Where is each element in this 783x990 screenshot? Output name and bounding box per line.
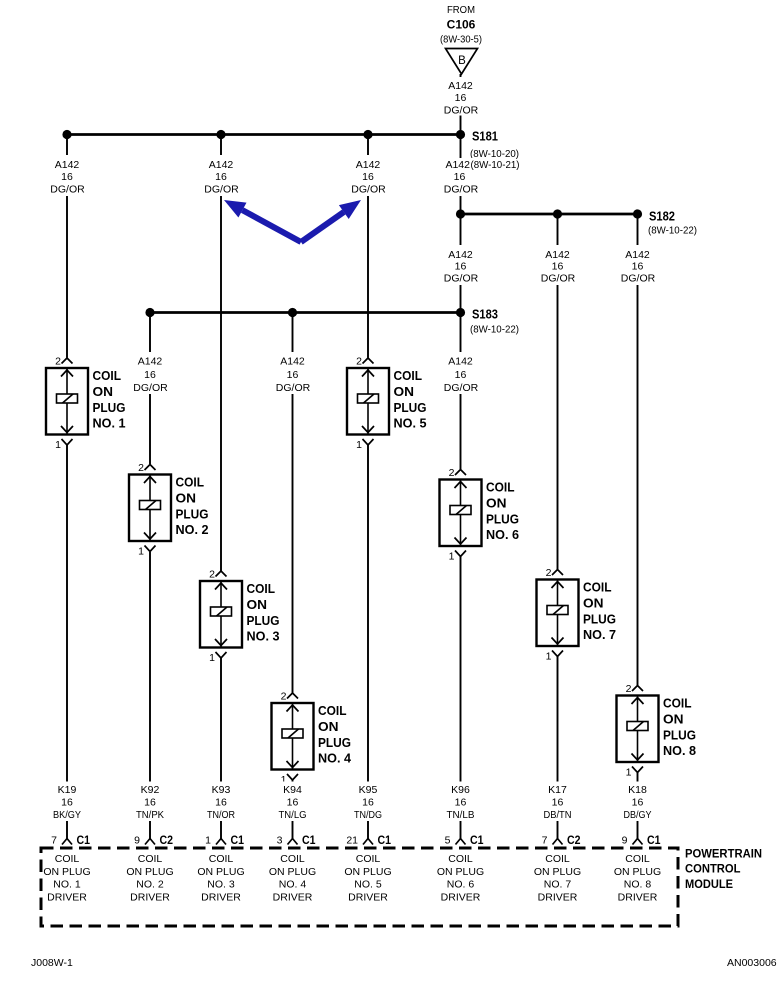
splice S181 junction dot at column 6 [456, 130, 465, 139]
wire A142 16 DG/OR column 3 (S181 bus to coil 3 pin 2) [220, 135, 222, 572]
svg-text:K94: K94 [283, 784, 302, 796]
svg-text:DB/GY: DB/GY [624, 809, 652, 821]
svg-text:ON PLUG: ON PLUG [126, 866, 173, 878]
wire K94 16 TN/LG coil 4 pin 1 to PCM [292, 779, 294, 840]
svg-text:1: 1 [449, 551, 455, 563]
svg-text:CONTROL: CONTROL [685, 862, 741, 876]
wire A142 16 DG/OR from C106 to S181/S182/S183 and coil 6 (column 6) [460, 74, 462, 469]
svg-text:16: 16 [362, 797, 374, 809]
svg-text:S181: S181 [472, 130, 498, 144]
svg-text:MODULE: MODULE [685, 877, 733, 891]
svg-text:COIL: COIL [93, 368, 122, 383]
svg-text:DRIVER: DRIVER [538, 892, 578, 904]
svg-text:S182: S182 [649, 210, 675, 224]
svg-text:PLUG: PLUG [394, 400, 427, 415]
svg-text:NO. 3: NO. 3 [247, 629, 280, 644]
svg-text:K96: K96 [451, 784, 470, 796]
connector pin 21 C1 (coil 5 driver) [346, 833, 391, 847]
svg-text:A142: A142 [356, 159, 381, 171]
svg-text:COIL: COIL [55, 853, 80, 865]
svg-text:TN/PK: TN/PK [136, 809, 164, 821]
label wire A142 16 DG/OR column 7 [536, 245, 580, 285]
svg-text:A142: A142 [545, 249, 570, 261]
label wire A142 16 (8W-10-21) DG/OR (below S181) [444, 158, 520, 196]
connector pin 5 C1 (coil 6 driver) [445, 833, 484, 847]
svg-text:DRIVER: DRIVER [348, 892, 388, 904]
coil on plug no. 5 (component) [347, 356, 427, 452]
svg-text:DRIVER: DRIVER [618, 892, 658, 904]
label wire A142 16 DG/OR column 1 [45, 155, 89, 196]
svg-text:DG/OR: DG/OR [204, 184, 239, 196]
node S183 label [470, 308, 519, 336]
svg-text:COIL: COIL [356, 853, 381, 865]
svg-text:COIL: COIL [545, 853, 570, 865]
svg-text:DG/OR: DG/OR [444, 273, 479, 285]
junction dot S183 bus at column 4 [288, 308, 297, 317]
svg-text:16: 16 [362, 171, 374, 183]
svg-text:5: 5 [445, 835, 451, 847]
svg-text:PLUG: PLUG [247, 613, 280, 628]
label J008W-1 (diagram number) [31, 957, 73, 969]
svg-text:1: 1 [356, 439, 362, 451]
svg-text:NO. 6: NO. 6 [486, 527, 519, 542]
svg-text:ON PLUG: ON PLUG [344, 866, 391, 878]
svg-text:ON: ON [247, 597, 268, 612]
svg-text:COIL: COIL [486, 480, 515, 495]
svg-text:C106: C106 [447, 18, 476, 32]
svg-text:NO. 1: NO. 1 [53, 879, 81, 891]
wire K93 16 TN/OR coil 3 pin 1 to PCM [220, 658, 222, 840]
splice S182 junction dot at column 8 [633, 209, 642, 218]
svg-text:A142: A142 [280, 356, 305, 368]
svg-text:TN/DG: TN/DG [354, 809, 382, 821]
svg-text:K95: K95 [359, 784, 378, 796]
label wire K92 16 TN/PK [126, 782, 174, 822]
svg-text:NO. 7: NO. 7 [544, 879, 572, 891]
svg-text:21: 21 [346, 835, 358, 847]
coil on plug no. 1 (component) [46, 356, 126, 452]
svg-text:ON: ON [486, 496, 507, 511]
connector pin 3 C1 (coil 4 driver) [277, 833, 316, 847]
svg-text:NO. 5: NO. 5 [394, 416, 427, 431]
svg-text:COIL: COIL [318, 703, 347, 718]
bus wire S181 (horizontal) [67, 133, 461, 136]
svg-text:16: 16 [632, 797, 644, 809]
connector pin 7 C2 (coil 7 driver) [542, 833, 581, 847]
svg-text:B: B [458, 55, 466, 67]
wire K96 16 TN/LB coil 6 pin 1 to PCM [460, 557, 462, 840]
svg-text:COIL: COIL [583, 580, 612, 595]
svg-text:K19: K19 [58, 784, 77, 796]
svg-text:ON: ON [93, 384, 114, 399]
svg-text:C1: C1 [378, 833, 392, 847]
svg-text:2: 2 [55, 356, 61, 368]
svg-text:TN/LB: TN/LB [447, 809, 475, 821]
label wire A142 16 DG/OR column 6 (below S182) [439, 245, 483, 285]
svg-text:FROM: FROM [447, 4, 475, 16]
svg-text:PLUG: PLUG [176, 507, 209, 522]
svg-text:TN/LG: TN/LG [279, 809, 307, 821]
connector pin 1 C1 (coil 3 driver) [205, 833, 244, 847]
svg-text:1: 1 [626, 767, 632, 779]
svg-text:2: 2 [449, 467, 455, 479]
coil on plug no. 6 (component) [440, 467, 520, 563]
svg-text:3: 3 [277, 835, 283, 847]
svg-text:(8W-30-5): (8W-30-5) [440, 34, 482, 46]
svg-text:16: 16 [454, 171, 466, 183]
svg-text:DG/OR: DG/OR [444, 184, 479, 196]
svg-text:1: 1 [138, 546, 144, 558]
svg-text:1: 1 [546, 651, 552, 663]
node S182 label [648, 210, 697, 237]
label coil on plug no. 1 driver (inside PCM) [43, 853, 90, 904]
wire A142 16 DG/OR column 8 (S182 to coil 8 pin 2) [637, 214, 639, 685]
label wire K95 16 TN/DG [344, 782, 392, 822]
svg-text:2: 2 [546, 567, 552, 579]
coil on plug no. 4 (component) [272, 691, 352, 787]
svg-text:C2: C2 [160, 833, 174, 847]
svg-text:C1: C1 [647, 833, 661, 847]
svg-text:C1: C1 [231, 833, 245, 847]
svg-text:AN003006: AN003006 [727, 957, 777, 969]
coil on plug no. 3 (component) [200, 569, 280, 665]
wire K92 16 TN/PK coil 2 pin 1 to PCM [149, 552, 151, 839]
coil on plug no. 7 (component) [537, 567, 617, 663]
svg-text:K18: K18 [628, 784, 647, 796]
svg-text:DRIVER: DRIVER [47, 892, 87, 904]
svg-text:16: 16 [455, 261, 467, 273]
svg-text:NO. 4: NO. 4 [318, 751, 352, 766]
svg-text:(8W-10-22): (8W-10-22) [470, 324, 519, 336]
svg-text:(8W-10-21): (8W-10-21) [471, 159, 520, 171]
svg-text:COIL: COIL [138, 853, 163, 865]
label wire K19 16 BK/GY [43, 782, 91, 822]
svg-text:ON PLUG: ON PLUG [197, 866, 244, 878]
svg-text:COIL: COIL [280, 853, 305, 865]
svg-text:ON PLUG: ON PLUG [43, 866, 90, 878]
label AN003006 (diagram id) [727, 957, 777, 969]
svg-text:K92: K92 [141, 784, 160, 796]
svg-text:9: 9 [134, 835, 140, 847]
svg-text:PLUG: PLUG [583, 612, 616, 627]
svg-text:ON PLUG: ON PLUG [269, 866, 316, 878]
label wire A142 16 DG/OR column 6 (below S183) [439, 352, 483, 394]
junction dot S181 bus at column 3 [216, 130, 225, 139]
svg-text:16: 16 [144, 797, 156, 809]
label coil on plug no. 3 driver (inside PCM) [197, 853, 244, 904]
label coil on plug no. 2 driver (inside PCM) [126, 853, 173, 904]
label coil on plug no. 7 driver (inside PCM) [534, 853, 581, 904]
connector pin 9 C1 (coil 8 driver) [622, 833, 661, 847]
svg-text:7: 7 [51, 835, 57, 847]
svg-text:2: 2 [138, 462, 144, 474]
svg-text:A142: A142 [448, 249, 473, 261]
wire A142 16 DG/OR column 7 (S182 to coil 7 pin 2) [557, 214, 559, 569]
wire A142 16 DG/OR column 5 (S181 bus to coil 5 pin 2) [367, 135, 369, 358]
svg-text:NO. 4: NO. 4 [279, 879, 307, 891]
svg-text:DG/OR: DG/OR [621, 273, 656, 285]
svg-text:C1: C1 [470, 833, 484, 847]
pointer arrow (blue) to column 3 wire [224, 200, 301, 242]
svg-text:BK/GY: BK/GY [53, 809, 81, 821]
svg-text:A142: A142 [55, 159, 80, 171]
svg-text:(8W-10-22): (8W-10-22) [648, 225, 697, 237]
wire K18 16 DB/GY coil 8 pin 1 to PCM [637, 773, 639, 840]
svg-text:COIL: COIL [663, 696, 692, 711]
svg-text:1: 1 [209, 652, 215, 664]
svg-text:K17: K17 [548, 784, 567, 796]
svg-text:COIL: COIL [448, 853, 473, 865]
splice S183 junction dot at column 6 [456, 308, 465, 317]
label wire A142 16 DG/OR column 4 (below S183) [271, 352, 315, 394]
svg-text:1: 1 [205, 835, 211, 847]
junction dot S183 bus at column 2 [145, 308, 154, 317]
svg-text:DG/OR: DG/OR [444, 105, 479, 117]
svg-text:16: 16 [61, 797, 73, 809]
pointer arrow (blue) to column 5 wire [301, 200, 361, 242]
bus wire S183 (horizontal) [150, 311, 461, 314]
junction dot S182 bus at column 7 [553, 209, 562, 218]
svg-text:ON: ON [583, 596, 604, 611]
svg-text:A142: A142 [445, 159, 470, 171]
svg-text:2: 2 [626, 683, 632, 695]
svg-text:ON: ON [394, 384, 415, 399]
svg-text:DRIVER: DRIVER [441, 892, 481, 904]
svg-text:NO. 5: NO. 5 [354, 879, 382, 891]
svg-text:NO. 3: NO. 3 [207, 879, 235, 891]
svg-text:16: 16 [632, 261, 644, 273]
powertrain control module box (dashed) [41, 848, 678, 926]
bus wire S182 (horizontal) [461, 213, 638, 216]
svg-text:NO. 1: NO. 1 [93, 416, 126, 431]
svg-text:16: 16 [61, 171, 73, 183]
svg-text:ON PLUG: ON PLUG [437, 866, 484, 878]
svg-text:16: 16 [552, 261, 564, 273]
label POWERTRAIN CONTROL MODULE [685, 847, 762, 892]
svg-text:16: 16 [455, 92, 467, 104]
label wire K94 16 TN/LG [269, 782, 317, 822]
svg-text:C1: C1 [302, 833, 316, 847]
svg-text:ON: ON [176, 491, 197, 506]
svg-text:A142: A142 [138, 356, 163, 368]
label wire K18 16 DB/GY [614, 782, 662, 822]
junction dot S181 bus at column 5 [363, 130, 372, 139]
svg-text:PLUG: PLUG [318, 735, 351, 750]
svg-text:NO. 2: NO. 2 [136, 879, 164, 891]
svg-text:DB/TN: DB/TN [544, 809, 572, 821]
svg-text:COIL: COIL [625, 853, 650, 865]
label wire A142 16 DG/OR column 2 (below S183) [128, 352, 172, 394]
svg-text:2: 2 [356, 356, 362, 368]
svg-text:K93: K93 [212, 784, 231, 796]
svg-text:C2: C2 [567, 833, 581, 847]
label wire A142 16 DG/OR column 8 [616, 245, 660, 285]
label coil on plug no. 8 driver (inside PCM) [614, 853, 661, 904]
wire A142 16 DG/OR column 1 (S181 to coil 1 pin 2) [66, 135, 68, 358]
svg-text:POWERTRAIN: POWERTRAIN [685, 847, 762, 861]
connector pin 9 C2 (coil 2 driver) [134, 833, 173, 847]
svg-text:1: 1 [55, 439, 61, 451]
svg-text:DG/OR: DG/OR [541, 273, 576, 285]
label FROM C106 (8W-30-5) [430, 0, 495, 46]
svg-text:ON: ON [318, 719, 339, 734]
svg-text:ON: ON [663, 712, 684, 727]
svg-text:ON PLUG: ON PLUG [534, 866, 581, 878]
wire K17 16 DB/TN coil 7 pin 1 to PCM [557, 657, 559, 840]
svg-text:16: 16 [144, 369, 156, 381]
svg-text:2: 2 [209, 569, 215, 581]
svg-text:S183: S183 [472, 308, 498, 322]
svg-text:16: 16 [455, 797, 467, 809]
svg-text:COIL: COIL [209, 853, 234, 865]
svg-text:TN/OR: TN/OR [207, 809, 235, 821]
svg-text:PLUG: PLUG [663, 728, 696, 743]
label coil on plug no. 5 driver (inside PCM) [344, 853, 391, 904]
wire K19 16 BK/GY coil 1 pin 1 to PCM [66, 445, 68, 840]
svg-text:A142: A142 [209, 159, 234, 171]
svg-text:16: 16 [215, 797, 227, 809]
svg-text:A142: A142 [625, 249, 650, 261]
wire A142 16 DG/OR column 4 (S183 to coil 4 pin 2) [292, 313, 294, 694]
svg-text:ON PLUG: ON PLUG [614, 866, 661, 878]
label wire A142 16 DG/OR column 5 [346, 155, 390, 196]
label coil on plug no. 6 driver (inside PCM) [437, 853, 484, 904]
label wire A142 16 DG/OR (above S181) [440, 77, 482, 117]
junction dot S181 bus at column 1 [62, 130, 71, 139]
svg-text:9: 9 [622, 835, 628, 847]
label wire K96 16 TN/LB [437, 782, 485, 822]
svg-text:DG/OR: DG/OR [50, 184, 85, 196]
wire K95 16 TN/DG coil 5 pin 1 to PCM [367, 445, 369, 840]
splice S182 junction dot at column 6 [456, 209, 465, 218]
svg-text:COIL: COIL [247, 581, 276, 596]
svg-text:COIL: COIL [394, 368, 423, 383]
label coil on plug no. 4 driver (inside PCM) [269, 853, 316, 904]
wire A142 16 DG/OR column 2 (S183 to coil 2 pin 2) [149, 313, 151, 465]
connector pin 7 C1 (coil 1 driver) [51, 833, 90, 847]
svg-text:NO. 6: NO. 6 [447, 879, 475, 891]
svg-text:DRIVER: DRIVER [273, 892, 313, 904]
svg-text:DG/OR: DG/OR [351, 184, 386, 196]
svg-text:COIL: COIL [176, 475, 205, 490]
svg-text:16: 16 [287, 797, 299, 809]
svg-text:2: 2 [281, 691, 287, 703]
svg-text:NO. 8: NO. 8 [663, 743, 696, 758]
svg-text:NO. 7: NO. 7 [583, 627, 616, 642]
svg-text:PLUG: PLUG [486, 512, 519, 527]
svg-text:J008W-1: J008W-1 [31, 957, 73, 969]
label wire K93 16 TN/OR [197, 782, 245, 822]
coil on plug no. 2 (component) [129, 462, 209, 558]
node S181 label [470, 130, 519, 161]
svg-text:DG/OR: DG/OR [444, 382, 479, 394]
svg-text:A142: A142 [448, 80, 473, 92]
svg-text:16: 16 [552, 797, 564, 809]
svg-text:PLUG: PLUG [93, 400, 126, 415]
svg-text:NO. 2: NO. 2 [176, 522, 209, 537]
svg-text:DRIVER: DRIVER [130, 892, 170, 904]
svg-text:NO. 8: NO. 8 [624, 879, 652, 891]
svg-text:C1: C1 [77, 833, 91, 847]
svg-text:DG/OR: DG/OR [276, 382, 311, 394]
svg-text:16: 16 [215, 171, 227, 183]
svg-text:DRIVER: DRIVER [201, 892, 241, 904]
label wire K17 16 DB/TN [534, 782, 582, 822]
svg-text:16: 16 [287, 369, 299, 381]
svg-text:DG/OR: DG/OR [133, 382, 168, 394]
svg-text:A142: A142 [448, 356, 473, 368]
svg-text:16: 16 [455, 369, 467, 381]
connector C106 triangle (pin B) [446, 49, 478, 75]
svg-text:7: 7 [542, 835, 548, 847]
label wire A142 16 DG/OR column 3 [199, 155, 243, 196]
coil on plug no. 8 (component) [617, 683, 697, 779]
